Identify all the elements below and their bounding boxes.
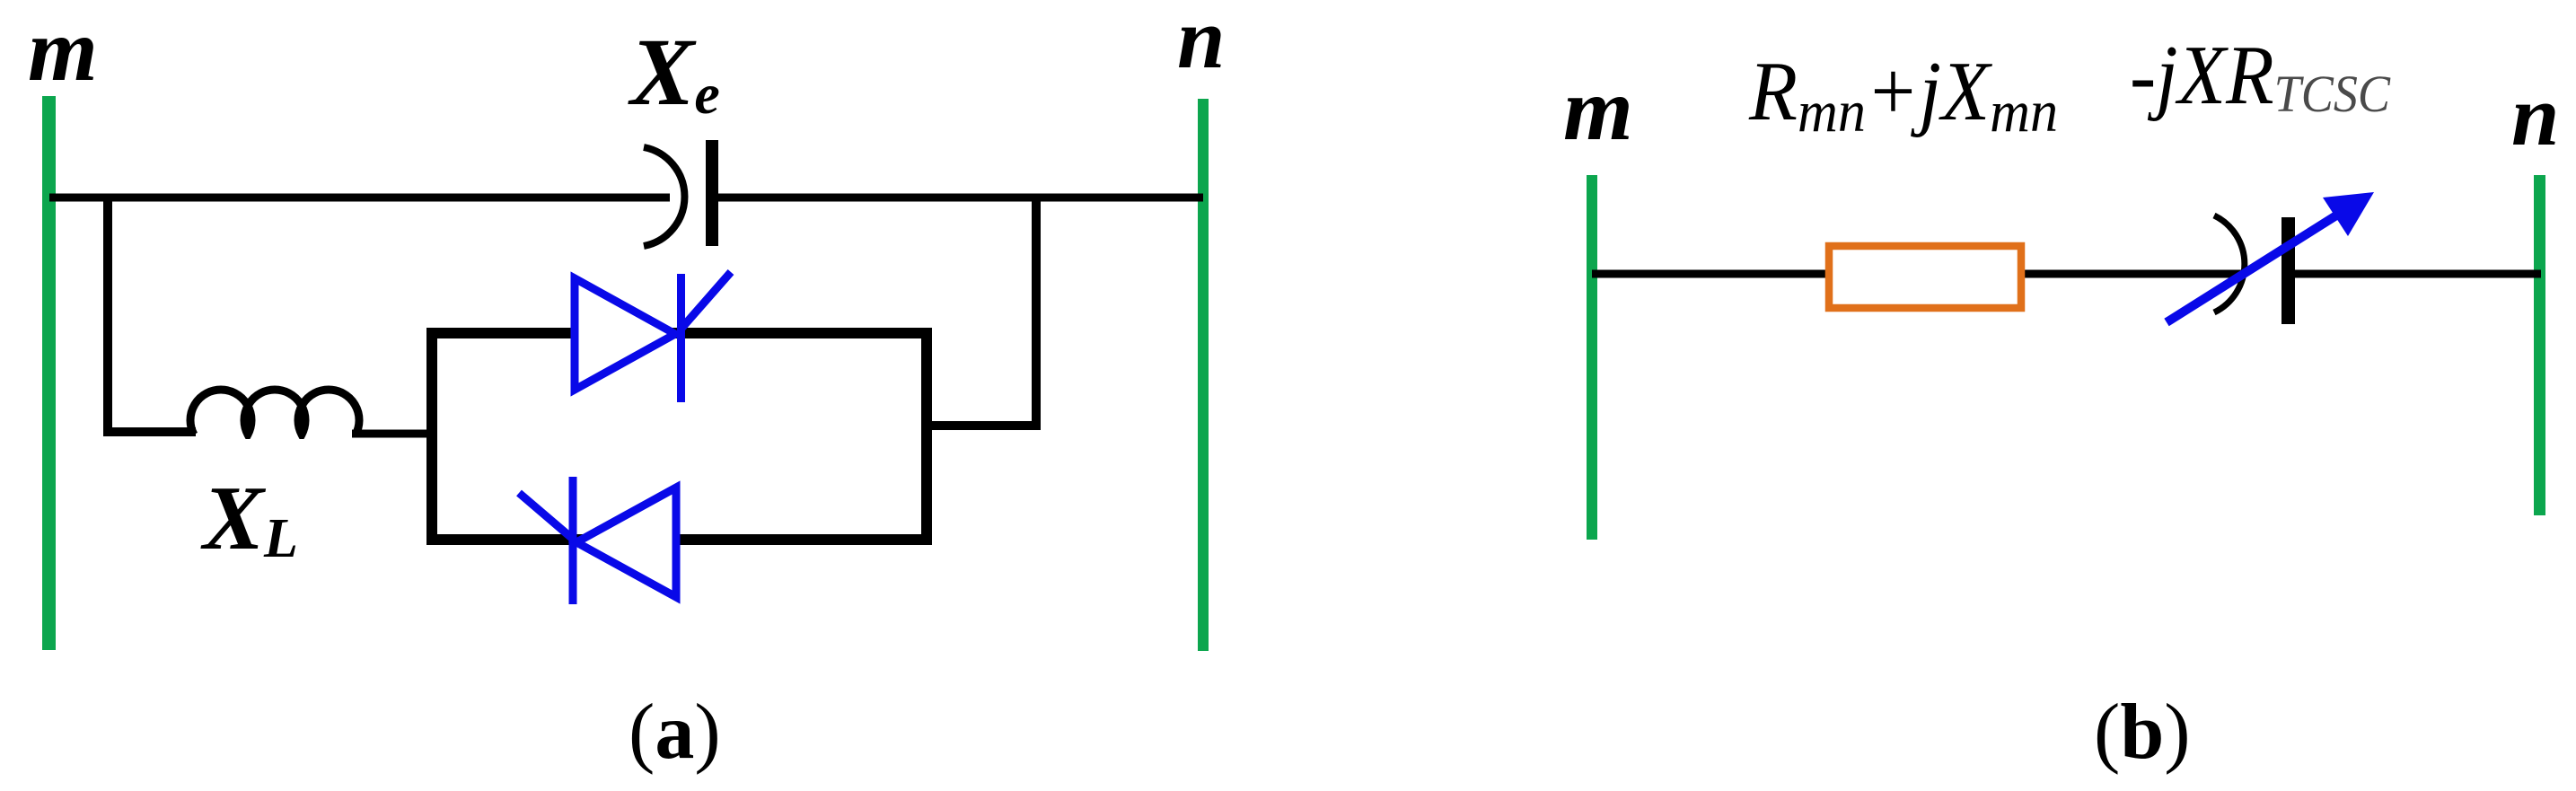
svg-text:m: m [28, 0, 98, 100]
svg-text:(b): (b) [2094, 689, 2191, 776]
svg-text:m: m [1563, 59, 1633, 159]
svg-text:n: n [2511, 67, 2559, 163]
svg-text:(a): (a) [629, 689, 721, 776]
svg-text:n: n [1177, 0, 1225, 86]
